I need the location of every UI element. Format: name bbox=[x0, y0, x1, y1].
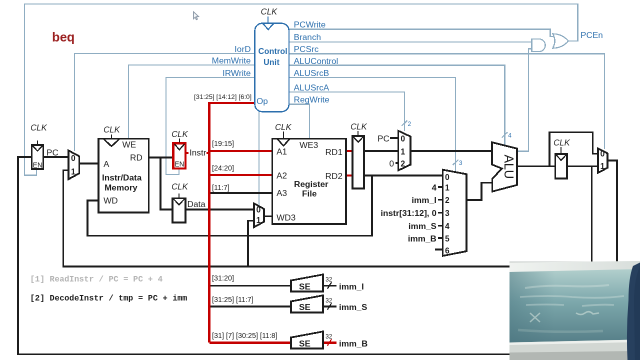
OR gate PCEn bbox=[553, 34, 569, 48]
svg-text:Data: Data bbox=[187, 199, 205, 209]
svg-text:WD3: WD3 bbox=[277, 212, 296, 222]
svg-text:IorD: IorD bbox=[235, 44, 251, 54]
svg-text:2: 2 bbox=[445, 196, 450, 205]
svg-text:ALUSrcB: ALUSrcB bbox=[294, 68, 330, 78]
svg-text:[31] [7] [30:25] [11:8]: [31] [7] [30:25] [11:8] bbox=[212, 331, 277, 340]
svg-text:Instr: Instr bbox=[190, 147, 207, 157]
svg-text:1: 1 bbox=[600, 162, 605, 171]
svg-text:EN: EN bbox=[33, 162, 43, 169]
wire PCWrite bbox=[289, 29, 556, 36]
control unit labels bbox=[257, 47, 288, 106]
wire PCEn loop (OR output to PC EN) bbox=[25, 4, 578, 175]
red Instr bus bbox=[208, 103, 211, 343]
mux Result bbox=[598, 148, 608, 172]
red wire SE3 input 31 7 30:25 11:8 bbox=[209, 342, 291, 344]
control output labels bbox=[294, 20, 603, 105]
svg-text:0: 0 bbox=[256, 205, 261, 214]
svg-text:Control: Control bbox=[258, 47, 287, 56]
svg-text:0: 0 bbox=[71, 154, 76, 163]
wire RegWrite bbox=[289, 104, 310, 138]
red wire IR out Instr bbox=[186, 152, 210, 154]
register IR (red highlighted) bbox=[173, 139, 185, 169]
svg-text:A: A bbox=[104, 159, 110, 169]
svg-text:CLK: CLK bbox=[275, 122, 292, 132]
red wire A2 24:20 bbox=[209, 174, 272, 176]
wire ALUOut branch down bbox=[591, 166, 593, 262]
node labels PC Instr Data bbox=[33, 147, 207, 209]
svg-text:[2] DecodeInstr / tmp = PC +: [2] DecodeInstr / tmp = PC + imm bbox=[30, 294, 187, 304]
mux IorD bbox=[69, 151, 80, 180]
svg-text:WD: WD bbox=[104, 196, 118, 206]
svg-text:SE: SE bbox=[299, 338, 311, 348]
ALU label bbox=[502, 155, 516, 179]
svg-text:CLK: CLK bbox=[172, 181, 189, 191]
wire imm_B stub bbox=[438, 237, 443, 239]
state annotation lines bbox=[30, 275, 187, 304]
svg-text:ALU: ALU bbox=[502, 155, 516, 179]
SE imm_B bbox=[291, 332, 323, 349]
svg-text:CLK: CLK bbox=[554, 137, 571, 147]
svg-text:MemWrite: MemWrite bbox=[212, 56, 251, 66]
svg-text:imm_S: imm_S bbox=[408, 221, 436, 231]
wire 4 stub bbox=[438, 186, 443, 188]
wire Result mux out down bbox=[608, 161, 617, 262]
svg-text:CLK: CLK bbox=[104, 124, 121, 134]
select slash ALUSrcA 2 bbox=[402, 121, 408, 126]
svg-text:CLK: CLK bbox=[261, 6, 278, 16]
svg-text:File: File bbox=[302, 188, 317, 198]
wire PCSrc bbox=[289, 54, 604, 149]
svg-text:32: 32 bbox=[326, 335, 333, 341]
svg-text:PCWrite: PCWrite bbox=[294, 20, 326, 30]
svg-text:PC: PC bbox=[378, 133, 390, 143]
register PC bbox=[32, 141, 44, 170]
svg-text:CLK: CLK bbox=[351, 121, 368, 131]
wire instr31:12 stub bbox=[438, 212, 443, 214]
svg-text:A2: A2 bbox=[277, 170, 288, 180]
wire input6 stub bbox=[435, 249, 443, 251]
svg-text:PCEn: PCEn bbox=[581, 30, 604, 40]
chalk smudges bbox=[518, 285, 624, 332]
wire imm_S stub bbox=[438, 225, 443, 227]
svg-text:3: 3 bbox=[445, 209, 450, 218]
svg-text:A1: A1 bbox=[277, 146, 288, 156]
mux SrcA bbox=[398, 131, 410, 171]
svg-text:2: 2 bbox=[401, 160, 406, 169]
wire Data register out to WD3 mux bbox=[186, 208, 254, 210]
svg-text:1: 1 bbox=[256, 216, 261, 225]
svg-text:[31:25] [14:12] [6:0]: [31:25] [14:12] [6:0] bbox=[194, 94, 252, 101]
svg-text:0: 0 bbox=[600, 149, 605, 158]
AND gate PCEn bbox=[532, 39, 546, 52]
wire Result bus to IorD mux input 1 bbox=[63, 170, 510, 266]
svg-text:SE: SE bbox=[299, 302, 311, 312]
wire ALU result bypass bbox=[549, 132, 598, 166]
svg-text:SE: SE bbox=[299, 281, 311, 291]
svg-text:Branch: Branch bbox=[294, 32, 321, 42]
SE imm_I bbox=[291, 275, 323, 292]
mouse cursor bbox=[194, 12, 199, 20]
Control Unit box bbox=[255, 17, 289, 112]
wire ALUSrcB bbox=[289, 78, 456, 172]
wire SE2 out imm_S bbox=[323, 306, 337, 308]
svg-text:[1] ReadInstr / PC = PC + 4: [1] ReadInstr / PC = PC + 4 bbox=[30, 275, 163, 285]
svg-text:0: 0 bbox=[445, 173, 450, 182]
wall below bbox=[510, 351, 640, 360]
svg-text:RD1: RD1 bbox=[325, 147, 342, 157]
svg-text:[24:20]: [24:20] bbox=[212, 163, 234, 172]
svg-text:Unit: Unit bbox=[264, 58, 280, 67]
mux WD3 bbox=[254, 203, 264, 227]
svg-text:RegWrite: RegWrite bbox=[294, 94, 330, 104]
svg-text:[11:7]: [11:7] bbox=[212, 183, 229, 192]
svg-text:A3: A3 bbox=[277, 188, 288, 198]
svg-text:IRWrite: IRWrite bbox=[222, 68, 251, 78]
SrcB mux input labels bbox=[381, 182, 437, 243]
SE labels bbox=[299, 278, 368, 349]
svg-text:Memory: Memory bbox=[105, 183, 138, 193]
wire ALU out to ALUOut register bbox=[517, 165, 555, 167]
memory labels bbox=[102, 140, 142, 206]
wire ALUControl bbox=[289, 65, 505, 145]
wire ALUOut to Result mux input 1 bbox=[567, 165, 598, 167]
wire Branch bbox=[289, 41, 532, 43]
wire 0 stub SrcA mux bbox=[395, 162, 398, 164]
register A B bbox=[353, 131, 365, 188]
svg-text:PCSrc: PCSrc bbox=[294, 44, 320, 54]
bitfield labels bbox=[194, 94, 277, 340]
wire SrcB mux out to ALU bbox=[467, 183, 493, 200]
slash 32 SE2 bbox=[328, 303, 332, 309]
svg-text:imm_I: imm_I bbox=[412, 195, 437, 205]
register file labels bbox=[277, 140, 343, 222]
svg-text:CLK: CLK bbox=[172, 129, 189, 139]
wire WD3 mux out to register file bbox=[264, 215, 272, 217]
select slash ALUSrcB 3 bbox=[453, 160, 459, 165]
svg-text:WE3: WE3 bbox=[300, 140, 319, 150]
red wire RD1 stub bbox=[346, 150, 353, 152]
svg-text:4: 4 bbox=[432, 182, 437, 192]
svg-text:Instr/Data: Instr/Data bbox=[102, 172, 142, 182]
svg-text:6: 6 bbox=[445, 246, 450, 255]
svg-text:1: 1 bbox=[401, 147, 406, 156]
svg-text:ALUSrcA: ALUSrcA bbox=[294, 82, 330, 92]
slash 32 SE1 bbox=[328, 282, 332, 288]
wire WD3 mux select bbox=[258, 112, 260, 206]
svg-text:1: 1 bbox=[71, 167, 76, 176]
wire SrcA mux out to ALU bbox=[411, 150, 492, 152]
svg-text:imm_S: imm_S bbox=[339, 302, 367, 312]
mux SrcB bbox=[443, 170, 467, 256]
svg-text:0: 0 bbox=[401, 134, 406, 143]
wire MemWrite bbox=[129, 65, 255, 139]
board top rail bbox=[510, 261, 640, 273]
webcam video overlay bbox=[510, 261, 640, 360]
svg-text:instr[31:12], 0: instr[31:12], 0 bbox=[381, 208, 437, 218]
wire imm_I stub bbox=[438, 199, 443, 201]
svg-text:imm_I: imm_I bbox=[339, 281, 364, 291]
control input labels bbox=[212, 44, 251, 78]
wire SE1 out imm_I bbox=[323, 285, 337, 287]
ALU bbox=[492, 142, 517, 191]
svg-text:EN: EN bbox=[175, 162, 185, 169]
svg-text:5: 5 bbox=[445, 234, 450, 243]
red wire Op to control unit bbox=[208, 102, 255, 104]
svg-text:imm_B: imm_B bbox=[339, 338, 368, 348]
svg-text:[31:25] [11:7]: [31:25] [11:7] bbox=[212, 295, 253, 304]
svg-text:PC: PC bbox=[47, 148, 59, 158]
wire PC stub SrcA mux bbox=[390, 137, 399, 139]
wire memory RD to IR bbox=[149, 157, 174, 159]
svg-text:RD: RD bbox=[130, 152, 142, 162]
Instr/Data Memory bbox=[99, 134, 149, 212]
wire ALUSrcA bbox=[289, 92, 404, 131]
board bottom rail / tray bbox=[510, 340, 640, 354]
select bit-width numbers bbox=[408, 122, 512, 167]
wire B to memory WD bbox=[88, 176, 373, 236]
wire A out to SrcA mux bbox=[364, 150, 398, 152]
select slash ALUControl 4 bbox=[502, 132, 508, 137]
wire IRWrite bbox=[166, 78, 255, 175]
svg-text:32: 32 bbox=[326, 299, 333, 305]
wire RD branch down to Data register bbox=[161, 158, 173, 210]
register Data bbox=[172, 194, 185, 223]
wire SE2 input 31:25 11:7 bbox=[209, 306, 291, 308]
Register File bbox=[272, 132, 346, 225]
CLK labels bbox=[31, 6, 571, 191]
svg-text:WE: WE bbox=[122, 140, 136, 150]
wire IorD bbox=[75, 54, 255, 152]
wire SE1 input 31:20 bbox=[209, 285, 291, 287]
person silhouette bbox=[627, 263, 640, 360]
red wire SE3 out imm_B bbox=[323, 342, 337, 344]
red wire A1 19:15 bbox=[209, 150, 272, 152]
register ALUOut bbox=[555, 147, 567, 178]
beq title bbox=[52, 30, 75, 45]
red wire RD2 stub bbox=[346, 175, 353, 177]
svg-text:[31:20]: [31:20] bbox=[212, 274, 234, 283]
wire B out to SrcB mux bbox=[364, 175, 443, 177]
svg-text:beq: beq bbox=[52, 30, 75, 45]
wire Result riser to WD3 mux input 1 bbox=[248, 221, 254, 267]
SrcA mux input labels bbox=[378, 133, 395, 168]
svg-text:ALUControl: ALUControl bbox=[294, 56, 339, 66]
chalkboard bbox=[510, 269, 640, 343]
wire PC out to IorD mux bbox=[43, 156, 68, 158]
svg-text:0: 0 bbox=[389, 158, 394, 168]
svg-text:4: 4 bbox=[445, 222, 450, 231]
SE imm_S bbox=[291, 295, 323, 312]
svg-text:1: 1 bbox=[445, 183, 450, 192]
wire PC next (bottom bus to PC input) bbox=[18, 157, 510, 354]
wire A3 bbox=[209, 192, 272, 194]
svg-text:[19:15]: [19:15] bbox=[212, 139, 234, 148]
red slash 32 SE3 bbox=[328, 339, 332, 345]
svg-text:32: 32 bbox=[326, 278, 333, 284]
wire Zero flag bbox=[517, 49, 532, 152]
svg-text:CLK: CLK bbox=[31, 123, 48, 133]
svg-text:Op: Op bbox=[257, 96, 269, 106]
wire IorD mux out to memory A bbox=[79, 163, 98, 165]
svg-text:imm_B: imm_B bbox=[408, 233, 437, 243]
mux numbers bbox=[71, 134, 605, 255]
